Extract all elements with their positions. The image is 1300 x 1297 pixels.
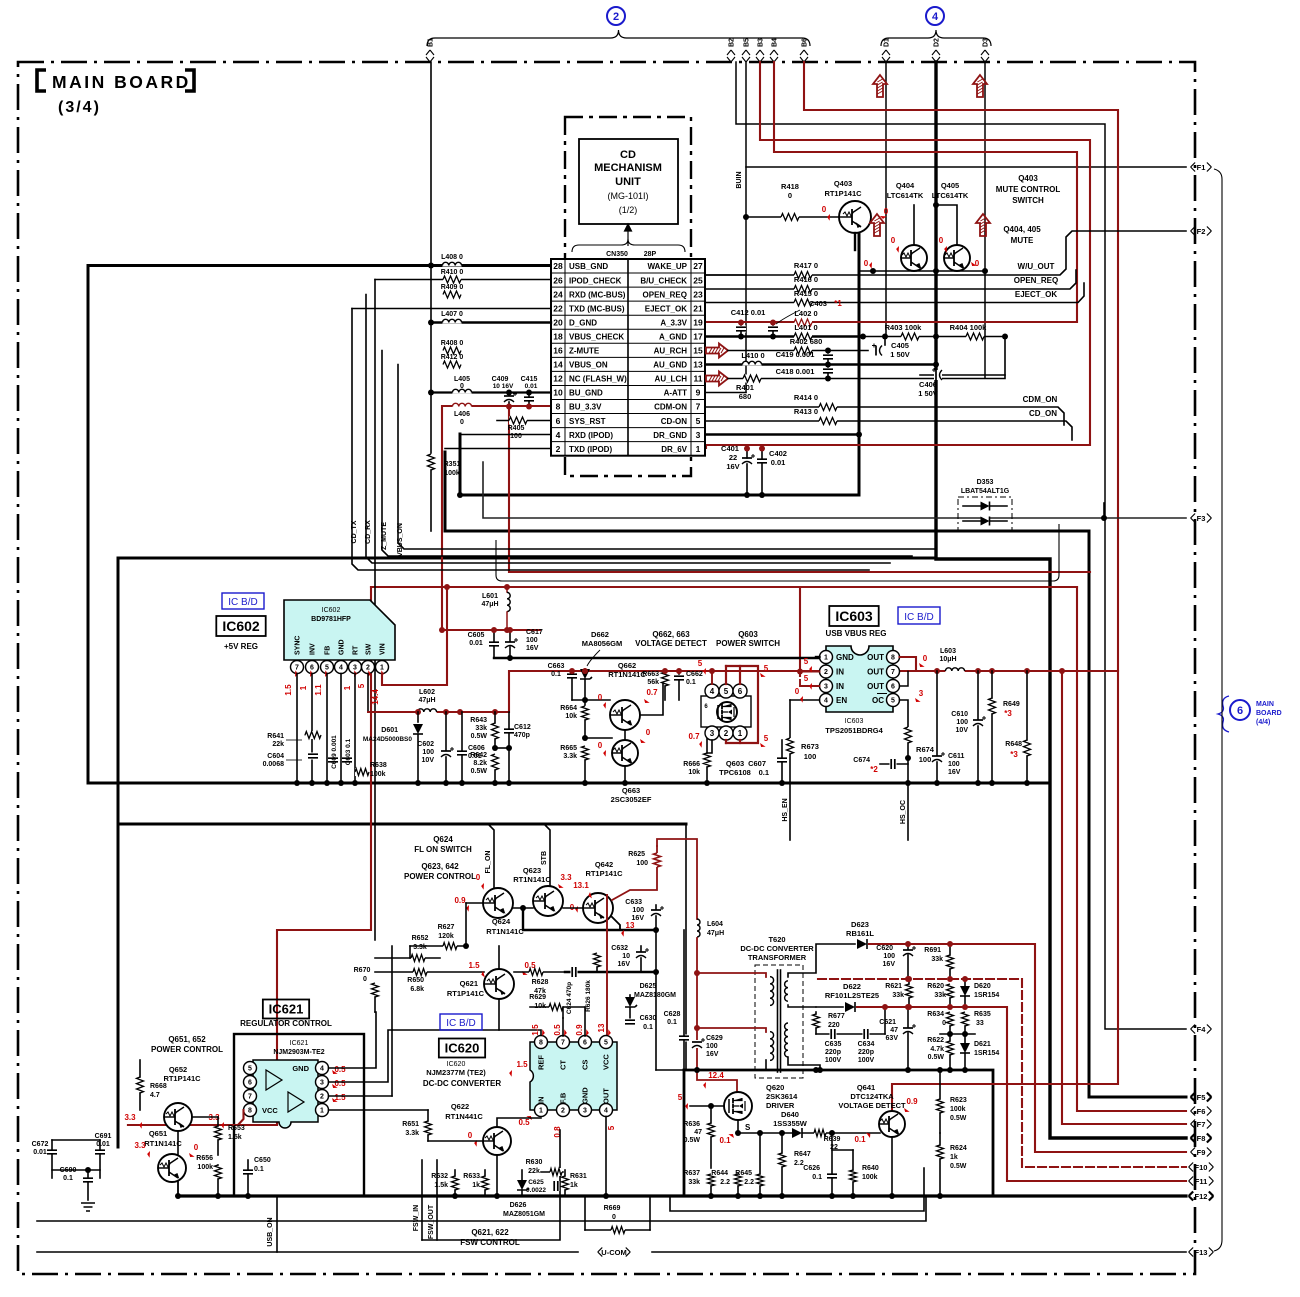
svg-text:R412 0: R412 0 [441,354,464,361]
connector B4 [770,50,778,62]
svg-text:CT: CT [559,1060,568,1070]
svg-text:GND: GND [339,639,346,655]
svg-text:100: 100 [948,761,960,768]
svg-text:10 16V: 10 16V [493,383,514,390]
svg-text:0: 0 [476,873,481,882]
IC621 pin 7 [244,1090,257,1103]
svg-text:OC: OC [872,696,884,705]
svg-text:R414 0: R414 0 [794,393,818,402]
svg-text:0.7: 0.7 [646,688,658,697]
wire Q405 collector up [936,205,957,245]
connector D3 [981,50,989,62]
resistor R663 [661,672,669,686]
svg-text:Q405: Q405 [941,181,959,190]
wire secondary mid [788,1005,816,1007]
capacitor C691 [95,1149,105,1156]
connector F1 [1191,163,1196,172]
wire sense line y=1211 [670,1168,924,1211]
capacitor C406 [920,374,1005,376]
svg-text:AU_RCH: AU_RCH [654,347,688,356]
svg-text:VBUS_CHECK: VBUS_CHECK [569,332,624,341]
resistor R351 [427,454,435,470]
svg-text:GND: GND [836,653,854,662]
svg-text:12: 12 [553,374,563,384]
svg-text:B6: B6 [802,38,809,47]
svg-text:F.B: F.B [559,1092,568,1104]
inductor L601 [506,587,508,592]
svg-text:D2: D2 [934,38,941,47]
svg-text:2.2: 2.2 [720,1179,730,1186]
svg-text:33k: 33k [931,956,943,963]
resistor R638 [355,768,369,776]
svg-text:EJECT_OK: EJECT_OK [1015,290,1057,299]
svg-text:10: 10 [553,388,563,398]
svg-text:1k: 1k [570,1182,578,1189]
svg-text:SW: SW [366,643,373,655]
IC620 pin 3 GND [579,1104,592,1117]
svg-text:MUTE CONTROL: MUTE CONTROL [996,185,1061,194]
svg-text:W/U_OUT: W/U_OUT [1018,262,1055,271]
wire red IC603 IN feed [799,587,801,676]
inductor L604 [697,919,700,937]
svg-text:C402: C402 [769,449,787,458]
svg-text:0.1: 0.1 [63,1175,73,1182]
transformer T620 box [755,965,803,1078]
svg-text:DC-DC CONVERTER: DC-DC CONVERTER [423,1079,501,1088]
connector F13 [1189,1248,1194,1257]
svg-text:RXD (MC-BUS): RXD (MC-BUS) [569,290,626,299]
svg-text:1.5: 1.5 [516,1060,528,1069]
svg-text:C607: C607 [748,759,766,768]
svg-text:R665: R665 [560,745,577,752]
svg-text:C412 0.01: C412 0.01 [731,308,766,317]
svg-text:1SR154: 1SR154 [974,992,999,999]
svg-text:8: 8 [891,655,895,662]
svg-text:CN350: CN350 [606,251,628,258]
svg-text:RT1N441C: RT1N441C [445,1112,483,1121]
capacitor C632 [636,950,646,958]
label IC621 box [263,1000,309,1019]
wire rail y=824 [118,823,686,826]
wire IC621 pin outputs [329,1012,377,1068]
inductor L410 [742,361,761,365]
wire F1 line [746,166,1186,168]
IC621 pin 3 [316,1076,329,1089]
svg-text:B3: B3 [758,38,765,47]
svg-text:POWER SWITCH: POWER SWITCH [716,639,780,648]
resistor R629 [530,1006,585,1008]
wire Q603 pin3 down [707,740,712,753]
svg-text:FSW CONTROL: FSW CONTROL [460,1238,520,1247]
svg-text:U-COM: U-COM [601,1248,626,1257]
connector F10 [1189,1163,1194,1172]
transistor Q662 [610,700,640,730]
wire CDM-ON [706,407,1064,425]
svg-text:MAZ8051GM: MAZ8051GM [503,1211,545,1218]
wire Q642 base [563,907,583,909]
svg-text:BUIN: BUIN [736,171,743,188]
capacitor C629 [692,1040,702,1048]
svg-text:28: 28 [553,261,563,271]
svg-text:IC621: IC621 [269,1002,304,1017]
wire Q663 base [585,737,612,739]
svg-text:28P: 28P [644,251,657,258]
wire IC620 pin7 riser [562,1018,564,1036]
svg-text:F7: F7 [1197,1120,1206,1129]
svg-text:0.01: 0.01 [525,383,538,390]
svg-text:680: 680 [739,392,752,401]
wire loop path y=581 [496,524,1059,581]
svg-text:IN: IN [836,668,844,677]
svg-text:R626 180k: R626 180k [585,980,592,1012]
svg-text:5: 5 [678,1093,683,1102]
svg-text:IC602: IC602 [322,607,341,614]
svg-text:B4: B4 [772,38,779,47]
wire IC603 pin6 [900,672,909,687]
svg-text:R633: R633 [463,1173,480,1180]
wire row10 BU_GND [431,391,551,393]
svg-text:0.9: 0.9 [906,1097,918,1106]
resistor R624 [936,1145,944,1159]
svg-text:3: 3 [583,1108,587,1115]
wire IC603 pin2 red [800,671,820,673]
svg-text:TRANSFORMER: TRANSFORMER [748,953,807,962]
transformer secondary top [785,981,788,1001]
wire bottom thick rail to F12 [178,1194,1186,1197]
svg-text:100: 100 [526,637,538,644]
svg-text:20: 20 [553,317,563,327]
resistor R656 [214,1165,222,1179]
red arrow AU_RCH [706,344,728,358]
svg-text:6: 6 [1237,705,1243,717]
svg-text:C630: C630 [640,1015,657,1022]
wire primary bottom end [765,1060,767,1070]
IC621 pin 5 [244,1062,257,1075]
svg-text:Q652: Q652 [169,1065,187,1074]
svg-text:100: 100 [636,860,648,867]
svg-text:1: 1 [380,665,384,672]
wire thick 13V node [523,908,656,930]
svg-text:0: 0 [788,191,792,200]
wire red primary top [697,973,766,977]
resistor R644 [734,1174,742,1186]
svg-text:Q620: Q620 [766,1083,784,1092]
svg-text:RT1P141C: RT1P141C [824,189,862,198]
resistor R666 [703,753,711,767]
svg-text:F6: F6 [1197,1107,1206,1116]
svg-text:AU_LCH: AU_LCH [655,375,688,384]
resistor R637 [707,1174,715,1186]
capacitor C626 [827,1173,837,1180]
svg-text:1: 1 [343,685,352,690]
capacitor C607 [777,757,787,764]
svg-text:0.5: 0.5 [553,1024,562,1036]
wire Q403 collector [854,233,856,250]
svg-text:56k: 56k [647,679,659,686]
svg-text:0.5W: 0.5W [928,1054,945,1061]
svg-text:R403 100k: R403 100k [885,323,923,332]
svg-text:LTC614TK: LTC614TK [887,191,924,200]
svg-text:10k: 10k [534,1003,546,1010]
svg-text:4: 4 [604,1108,608,1115]
wire Q620 gate [690,1105,724,1107]
svg-text:B2: B2 [729,38,736,47]
wire CD-ON [706,421,1072,440]
wire U-COM line [37,1251,578,1253]
svg-text:C605: C605 [468,632,485,639]
wire IC602 pin5 drop [326,674,328,784]
diode D620 [960,986,970,996]
svg-text:C617: C617 [526,629,543,636]
svg-text:0: 0 [795,687,800,696]
svg-text:L405: L405 [454,376,470,383]
svg-text:L604: L604 [707,921,723,928]
zener D662 [580,669,590,679]
red arrow AU_LCH [706,372,728,386]
svg-text:R668: R668 [150,1083,167,1090]
resistor R691 [946,955,954,969]
svg-text:RT1P141C: RT1P141C [163,1074,201,1083]
IC603 body [826,646,893,712]
svg-text:16V: 16V [618,961,631,968]
wire red VCC IC620 [606,895,608,1036]
svg-text:EN: EN [836,696,847,705]
svg-text:5: 5 [764,734,769,743]
connector F12 [1189,1192,1194,1201]
svg-text:5: 5 [891,698,895,705]
svg-text:7: 7 [248,1094,252,1101]
svg-text:R664: R664 [560,705,577,712]
connector U-COM [598,1248,603,1257]
svg-text:(MG-101I): (MG-101I) [607,191,648,201]
wire dashed red to F10 [818,979,1186,1167]
wire rail y=558 from x=118 [118,558,936,1147]
svg-text:0.1: 0.1 [812,1174,822,1181]
capacitor C609 [328,757,338,764]
svg-text:STB: STB [541,851,548,865]
inductor L405 [452,389,471,393]
svg-text:1.5: 1.5 [284,684,293,696]
svg-text:R402 680: R402 680 [790,337,823,346]
svg-text:L406: L406 [454,411,470,418]
svg-text:R351: R351 [444,461,461,468]
capacitor C672 [47,1149,57,1156]
rail y=658 [494,657,820,659]
connector F9 [1191,1148,1196,1157]
resistor R627 [410,945,466,947]
connector F8 [1191,1134,1196,1143]
svg-text:R644: R644 [711,1170,728,1177]
resistor R642 [491,754,499,770]
wire red OUT rail y=671 to F7 and B6 [916,670,1118,672]
resistor R413 [819,417,837,425]
svg-text:0: 0 [822,205,827,214]
resistor R673 [789,700,791,738]
svg-text:0: 0 [194,1143,199,1152]
wire FL_ON [488,824,494,888]
capacitor C621 [903,1026,913,1034]
IC620 pin 6 CS [579,1036,592,1049]
svg-text:REGULATOR CONTROL: REGULATOR CONTROL [240,1019,332,1028]
svg-text:100: 100 [632,907,644,914]
resistor R668 [136,1077,144,1093]
transistor Q651 [158,1154,186,1182]
wire Q652 net [192,1116,218,1118]
wire Q621 net [514,971,565,973]
svg-text:R621: R621 [885,983,902,990]
svg-text:D621: D621 [974,1041,991,1048]
svg-text:C650: C650 [254,1157,271,1164]
svg-text:5: 5 [325,665,329,672]
svg-text:DC-DC CONVERTER: DC-DC CONVERTER [740,944,814,953]
connector B5 [742,50,750,62]
wire rail y=531 to F5 [445,452,1186,1097]
wire VBUS_ON staircase [398,365,934,550]
wire row26 drop [374,280,376,941]
capacitor C604 [308,753,318,760]
svg-text:HS_EN: HS_EN [782,798,789,821]
wire B2 to F4 [736,62,1186,1029]
svg-text:L602: L602 [419,689,435,696]
resistor R625 [653,853,661,867]
svg-text:RT1N141C: RT1N141C [144,1139,182,1148]
IC602 pin 3 RT [349,661,362,674]
IC602 pin 4 GND [335,661,348,674]
svg-text:33: 33 [976,1020,984,1027]
svg-text:13.1: 13.1 [573,881,589,890]
svg-text:Q662: Q662 [618,661,636,670]
svg-text:R416 0: R416 0 [794,275,818,284]
svg-text:CD_RX: CD_RX [365,520,372,544]
svg-text:2: 2 [824,669,828,676]
wire red primary bottom [697,1028,766,1032]
svg-text:3: 3 [919,689,924,698]
svg-text:C610: C610 [951,711,968,718]
wire W/U_OUT [706,231,1186,275]
svg-text:R647: R647 [794,1151,811,1158]
svg-text:IC B/D: IC B/D [228,597,257,608]
svg-text:100: 100 [422,749,434,756]
wire IC602 pin2 drop [367,674,369,713]
inductor L602 [417,709,436,713]
svg-text:R413 0: R413 0 [794,407,818,416]
svg-text:0.7: 0.7 [688,732,700,741]
diode D640 [792,1128,802,1138]
svg-text:LBAT54ALT1G: LBAT54ALT1G [961,488,1010,495]
svg-text:R640: R640 [862,1165,879,1172]
svg-text:10V: 10V [422,757,435,764]
svg-text:POWER CONTROL: POWER CONTROL [151,1045,223,1054]
svg-text:USB_ON: USB_ON [267,1217,274,1246]
svg-text:VIN: VIN [380,643,387,655]
wire Q642 emitter red [612,846,657,900]
svg-text:SYS_RST: SYS_RST [569,417,606,426]
svg-text:1.5: 1.5 [531,1024,540,1036]
svg-text:D_GND: D_GND [569,318,597,327]
svg-text:F11: F11 [1195,1177,1208,1186]
wire red BU3.3 row8 [442,406,551,630]
svg-text:16: 16 [553,346,563,356]
IC602 pin 6 INV [306,661,319,674]
wire Q641 base row [738,1132,880,1134]
svg-text:R666: R666 [683,761,700,768]
svg-text:R641: R641 [267,733,284,740]
wire IC603 pin4 EN [790,699,820,701]
capacitor C612 [504,728,514,735]
wire IC603 pin5 OC [900,700,909,727]
svg-text:1 50V: 1 50V [918,389,938,398]
wire row4 [460,434,551,436]
resistor R626 [593,953,601,967]
svg-text:MA24D5000BS0: MA24D5000BS0 [363,736,413,743]
op-amp IC602 body [284,600,395,660]
svg-text:C632: C632 [611,945,628,952]
wire FSW_IN [421,1160,423,1240]
svg-text:USB VBUS REG: USB VBUS REG [826,629,887,638]
svg-text:D626: D626 [510,1202,527,1209]
svg-text:10k: 10k [688,769,700,776]
svg-text:TXD (MC-BUS): TXD (MC-BUS) [569,304,625,313]
svg-text:3: 3 [710,729,715,738]
svg-text:C602: C602 [417,741,434,748]
svg-text:0: 0 [363,976,367,983]
transistor Q622 [483,1127,511,1155]
svg-text:6: 6 [556,416,561,426]
svg-text:Q404: Q404 [896,181,915,190]
transistor Q641 [879,1111,905,1137]
wire CD_TX staircase [352,309,869,571]
wire row26 [375,279,551,281]
svg-text:R404 100k: R404 100k [950,323,988,332]
svg-text:100k: 100k [862,1174,878,1181]
svg-text:L408 0: L408 0 [441,254,463,261]
svg-text:1: 1 [738,729,743,738]
label IC602 box [216,616,265,636]
svg-text:OUT: OUT [602,1088,611,1104]
capacitor C635 [830,1029,837,1039]
IC621 pin 1 [316,1104,329,1117]
svg-text:3: 3 [824,684,828,691]
svg-text:4: 4 [824,698,828,705]
IC603 pin 4 EN [820,694,833,707]
svg-text:TPS2051BDRG4: TPS2051BDRG4 [825,726,883,735]
svg-text:R663: R663 [642,671,659,678]
svg-text:3: 3 [353,665,357,672]
wire D1 vertical [885,62,887,336]
svg-text:C603 0.1: C603 0.1 [345,738,352,765]
svg-text:27: 27 [693,261,703,271]
transformer primary coil top [770,977,774,1006]
wire red 14.4V rail y=587 [371,586,1077,588]
op-amp A in IC621 [266,1070,282,1090]
wire STB [544,824,550,886]
resistor R648 [1023,740,1031,756]
svg-text:0.5: 0.5 [334,1079,346,1088]
wire IC603 pin1 GND [816,656,820,658]
red wiring Q603 [711,671,713,684]
svg-text:VCC: VCC [602,1054,611,1070]
svg-text:C406: C406 [919,380,937,389]
svg-text:0.1: 0.1 [667,1019,677,1026]
ground rail y=783 [88,782,1050,785]
IC620 pin 8 REF [535,1036,548,1049]
svg-text:SYNC: SYNC [295,636,302,655]
svg-text:0.5W: 0.5W [684,1137,701,1144]
svg-text:C609 0.001: C609 0.001 [331,735,338,769]
svg-text:0: 0 [598,741,603,750]
svg-text:POWER CONTROL: POWER CONTROL [404,872,476,881]
svg-text:D623: D623 [851,920,869,929]
